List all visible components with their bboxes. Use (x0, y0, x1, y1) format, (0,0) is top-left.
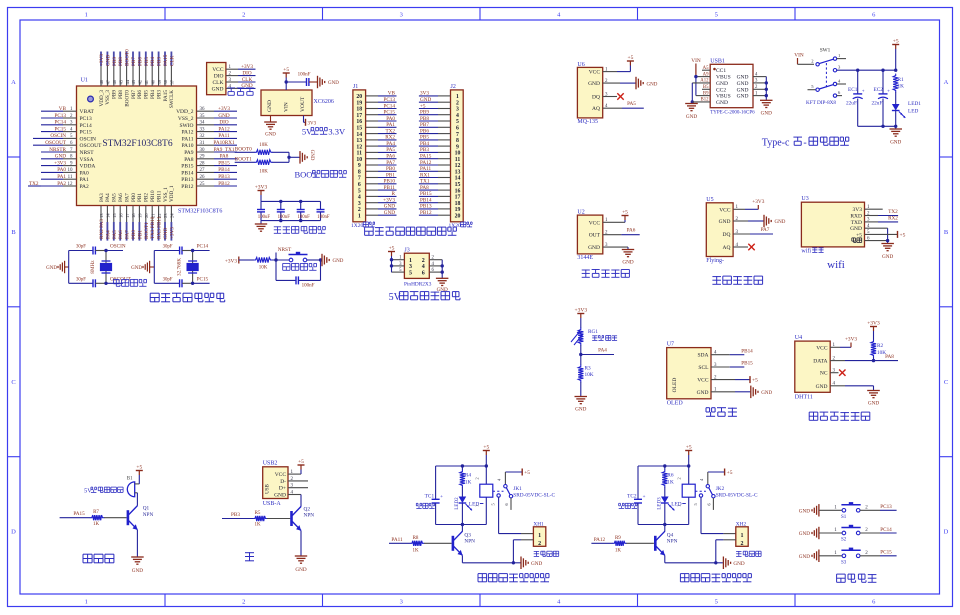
svg-text:MQ-135: MQ-135 (577, 119, 598, 125)
svg-text:VCC: VCC (212, 67, 224, 73)
resistor 10K reset (254, 257, 272, 262)
svg-text:B1: B1 (127, 477, 133, 482)
caption: MCU minimal system (150, 292, 159, 294)
caption: lamp (245, 552, 254, 554)
wire U7 SCL to PB15 (711, 366, 730, 368)
power +5 at J3 (391, 252, 393, 257)
svg-text:13: 13 (356, 138, 362, 144)
svg-text:TXD: TXD (851, 220, 862, 226)
svg-text:5: 5 (491, 503, 496, 505)
svg-text:PA6: PA6 (627, 228, 636, 234)
svg-text:wifi: wifi (827, 259, 845, 271)
svg-text:2: 2 (422, 258, 425, 264)
svg-text:33: 33 (200, 127, 206, 132)
resistor 10K (BOOT1) (255, 160, 273, 165)
svg-text:VCC: VCC (589, 220, 601, 226)
svg-text:TYPE-C-2000-16CP6: TYPE-C-2000-16CP6 (710, 111, 755, 116)
wire U3 TXD to RX2 (865, 221, 879, 223)
svg-text:wifi: wifi (801, 248, 811, 255)
svg-text:DATA: DATA (813, 359, 827, 365)
svg-text:4: 4 (456, 113, 459, 119)
wire CC2 stub (702, 88, 710, 90)
mcu U1 STM32F103C8T6 body (77, 86, 197, 206)
svg-text:8MHz: 8MHz (90, 260, 96, 274)
wire U5 GND (733, 220, 748, 222)
relay JK1 contacts (521, 469, 523, 476)
svg-text:PA4: PA4 (598, 348, 607, 354)
svg-text:+5: +5 (483, 445, 489, 451)
svg-text:XC6206: XC6206 (314, 99, 334, 105)
svg-text:29: 29 (200, 155, 206, 160)
wire U6 VCC to +5 (603, 71, 617, 73)
wire U6 DQ no-connect (603, 96, 617, 98)
svg-text:VBAT: VBAT (80, 109, 95, 115)
svg-text:100nF: 100nF (298, 215, 311, 220)
svg-text:U4: U4 (795, 335, 802, 341)
svg-text:DIO: DIO (214, 74, 224, 80)
svg-text:B: B (944, 229, 949, 236)
svg-text:PC13: PC13 (383, 97, 395, 103)
svg-text:AQ: AQ (723, 245, 731, 251)
svg-text:CLK: CLK (169, 55, 175, 66)
caption: buzzer (83, 553, 92, 555)
svg-text:VSS_3: VSS_3 (105, 90, 111, 105)
wire filter bottom bus (858, 125, 896, 127)
svg-text:43: 43 (131, 79, 136, 84)
svg-text:VIN: VIN (794, 53, 804, 59)
svg-text:3144E: 3144E (577, 255, 593, 261)
svg-text:PA6: PA6 (386, 154, 395, 160)
svg-text:PB3: PB3 (156, 90, 162, 99)
svg-text:1: 1 (456, 94, 459, 100)
svg-text:100uF: 100uF (258, 215, 271, 220)
svg-text:R5: R5 (255, 511, 261, 516)
svg-text:6: 6 (872, 12, 876, 19)
wire Q3 collector (461, 525, 463, 532)
svg-text:VCC: VCC (719, 207, 731, 213)
svg-text:SW1: SW1 (820, 48, 831, 54)
svg-text:3V3: 3V3 (853, 207, 863, 213)
svg-text:8: 8 (358, 170, 361, 176)
svg-text:4: 4 (838, 78, 841, 83)
svg-text:18: 18 (131, 213, 136, 218)
svg-text:36: 36 (200, 107, 206, 112)
svg-text:1: 1 (834, 528, 837, 533)
wire VOUT to 3V3 (303, 116, 305, 123)
wire Q4 collector (664, 525, 666, 532)
svg-text:6: 6 (872, 599, 876, 606)
svg-text:GND: GND (716, 81, 728, 87)
svg-text:10K: 10K (259, 266, 268, 271)
wire Q3 emitter to ground bus (461, 555, 463, 562)
svg-text:+5: +5 (686, 445, 692, 451)
ground at RG1 divider (575, 396, 588, 398)
svg-text:PC14: PC14 (880, 527, 892, 533)
svg-text:RG1: RG1 (588, 329, 598, 335)
button S1 (842, 509, 846, 513)
svg-text:30pF: 30pF (163, 278, 173, 283)
capacitor 100nF reset (295, 276, 297, 284)
svg-text:48: 48 (99, 79, 104, 84)
svg-text:D+: D+ (279, 486, 286, 492)
wire BOOT junction (288, 152, 290, 162)
svg-text:16: 16 (356, 119, 362, 125)
svg-text:PB4: PB4 (150, 57, 156, 66)
svg-text:GND: GND (274, 493, 286, 499)
svg-text:GND: GND (384, 204, 395, 210)
svg-text:CLK: CLK (242, 77, 253, 83)
wire U2 GND (603, 246, 628, 248)
wire Q4 emitter to ground bus (664, 555, 666, 562)
svg-text:GND: GND (105, 55, 111, 66)
svg-text:PA2: PA2 (80, 184, 90, 190)
crystal 8MHz (105, 251, 107, 284)
svg-text:PB12: PB12 (218, 181, 230, 187)
svg-text:4: 4 (422, 264, 425, 270)
capacitor 30pF bottom (92, 279, 94, 287)
svg-text:2: 2 (242, 599, 245, 606)
svg-text:C: C (11, 379, 15, 386)
svg-text:1: 1 (538, 533, 541, 539)
svg-text:PB1: PB1 (386, 172, 395, 178)
svg-text:41: 41 (144, 79, 149, 84)
ground at BOOT divider (299, 151, 301, 164)
svg-text:PA7: PA7 (125, 230, 131, 239)
svg-text:GND: GND (295, 567, 306, 573)
svg-text:PB0: PB0 (131, 230, 137, 239)
svg-text:23: 23 (163, 213, 168, 218)
svg-text:7: 7 (456, 132, 459, 138)
svg-text:38: 38 (163, 79, 168, 84)
svg-text:PA12: PA12 (420, 160, 432, 166)
capacitor 30pF top (92, 247, 94, 255)
crystal 32.768K (192, 251, 194, 284)
svg-text:+5: +5 (298, 459, 304, 465)
svg-text:PC15: PC15 (197, 277, 209, 283)
ground at XC6206 (264, 121, 277, 123)
power +5 at filter (895, 45, 897, 50)
svg-text:RX2 PA3: RX2 PA3 (99, 219, 105, 239)
svg-text:15: 15 (112, 213, 117, 218)
svg-text:SRD-05VDC-SL-C: SRD-05VDC-SL-C (513, 492, 555, 498)
svg-text:1: 1 (838, 53, 841, 58)
svg-text:SCL: SCL (698, 365, 709, 371)
svg-text:PB3: PB3 (157, 57, 163, 66)
svg-text:PB6: PB6 (137, 90, 143, 99)
resistor 10K (BOOT0) (255, 150, 273, 155)
wire U4 VCC to +3V3 (830, 346, 840, 348)
svg-text:PA3: PA3 (99, 193, 105, 202)
svg-text:OSCIN: OSCIN (80, 136, 97, 142)
svg-text:+3V3: +3V3 (867, 321, 880, 327)
svg-text:D: D (944, 529, 949, 536)
svg-text:GND: GND (212, 86, 224, 92)
svg-text:PB15: PB15 (420, 191, 432, 197)
ground at U2 (622, 249, 634, 251)
svg-text:SWIO: SWIO (179, 123, 193, 129)
svg-text:PA9: PA9 (184, 150, 194, 156)
wire crystal outputs (193, 250, 210, 252)
svg-text:PB15: PB15 (218, 160, 230, 166)
wire relay JK1 top bus (436, 465, 487, 467)
svg-text:VDD_3: VDD_3 (99, 90, 105, 107)
wire buzzer to +5 (135, 483, 140, 485)
svg-text:PA0: PA0 (386, 116, 395, 122)
svg-text:PA9_TX1: PA9_TX1 (214, 147, 235, 153)
svg-text:2: 2 (358, 207, 361, 213)
svg-text:PA15: PA15 (420, 154, 432, 160)
svg-text:VB: VB (59, 106, 67, 112)
wire U2 OUT to PA6 (603, 234, 622, 236)
svg-text:PA10: PA10 (181, 143, 193, 149)
svg-text:4: 4 (557, 599, 561, 606)
svg-text:8: 8 (456, 138, 459, 144)
svg-text:PB10: PB10 (383, 179, 395, 185)
svg-text:PA7: PA7 (124, 193, 130, 202)
svg-text:20: 20 (144, 213, 149, 218)
wire U7 SDA to PB14 (711, 354, 730, 356)
svg-text:U5: U5 (706, 197, 713, 203)
svg-text:TX1: TX1 (420, 179, 430, 185)
svg-text:VDD_1: VDD_1 (169, 185, 175, 202)
wire Q2 emitter to ground (300, 531, 302, 556)
svg-text:PB4: PB4 (150, 90, 156, 99)
svg-text:100nF: 100nF (302, 284, 315, 289)
wire U3 +5 (865, 233, 898, 235)
svg-text:GND: GND (131, 266, 142, 271)
svg-text:5: 5 (693, 503, 698, 505)
svg-text:13: 13 (99, 213, 104, 218)
svg-text:11: 11 (455, 157, 461, 163)
svg-text:CC1: CC1 (716, 68, 726, 74)
svg-text:1K: 1K (93, 522, 100, 527)
svg-text:45: 45 (118, 79, 123, 84)
svg-text:PB14: PB14 (181, 170, 193, 176)
svg-text:VIN: VIN (691, 58, 701, 64)
caption: hall sensor (582, 269, 590, 271)
svg-text:PB6: PB6 (137, 57, 143, 66)
svg-text:PA6: PA6 (118, 230, 124, 239)
caption: flame sensor (712, 276, 721, 278)
svg-text:28: 28 (200, 161, 206, 166)
svg-text:GND: GND (737, 75, 749, 81)
capacitor 30pF top (179, 247, 181, 255)
svg-text:TC2: TC2 (627, 494, 637, 500)
svg-text:OSCOUT: OSCOUT (45, 140, 67, 146)
svg-text:1K: 1K (465, 480, 472, 486)
svg-text:GND: GND (737, 94, 749, 100)
svg-text:16: 16 (118, 213, 123, 218)
svg-text:1K: 1K (667, 480, 674, 486)
svg-text:25: 25 (200, 182, 206, 187)
svg-text:PC13: PC13 (80, 116, 92, 122)
svg-text:PA12: PA12 (594, 537, 606, 543)
svg-text:3V3: 3V3 (420, 91, 429, 97)
svg-text:3: 3 (400, 599, 403, 606)
wire U5 VCC to +3V3 (733, 208, 745, 210)
svg-text:2: 2 (865, 551, 868, 556)
svg-text:CLK: CLK (213, 80, 224, 86)
svg-text:PA8: PA8 (885, 354, 894, 360)
capacitor TC1 tantalum (435, 466, 437, 499)
svg-text:SRD-05VDC-SL-C: SRD-05VDC-SL-C (716, 492, 758, 498)
power +5 at relay JK1 (485, 451, 487, 456)
svg-text:PA1: PA1 (386, 122, 395, 128)
svg-text:C: C (944, 379, 948, 386)
svg-text:Q1: Q1 (143, 506, 150, 512)
svg-text:+5: +5 (752, 378, 758, 384)
svg-text:9: 9 (358, 163, 361, 169)
svg-text:PB3: PB3 (231, 512, 240, 518)
svg-text:35: 35 (200, 114, 206, 119)
svg-text:PB1: PB1 (137, 193, 143, 202)
wire U5 DQ to PA7 (733, 233, 750, 235)
svg-text:PA5: PA5 (386, 147, 395, 153)
svg-text:GND: GND (267, 100, 273, 112)
svg-text:NPN: NPN (667, 539, 678, 545)
wire U3 pin6 to ground (865, 240, 888, 242)
svg-text:TX3 PB10: TX3 PB10 (150, 216, 156, 239)
svg-text:PC13: PC13 (54, 113, 66, 119)
svg-text:GND: GND (333, 259, 344, 264)
svg-text:BOOT0: BOOT0 (125, 49, 131, 66)
caption: independent buttons (837, 573, 846, 575)
svg-text:30pF: 30pF (76, 245, 86, 250)
svg-text:GND: GND (420, 97, 431, 103)
svg-text:39: 39 (157, 79, 162, 84)
ground at power filter (895, 126, 897, 129)
svg-text:RXD: RXD (850, 214, 862, 220)
svg-text:+5: +5 (136, 465, 142, 471)
svg-text:100nF: 100nF (317, 215, 330, 220)
svg-text:KFT DIP-8X8: KFT DIP-8X8 (806, 100, 836, 106)
svg-text:VCC: VCC (816, 345, 828, 351)
wire J3 right rail to ground (441, 260, 443, 279)
svg-text:VDD_2: VDD_2 (176, 109, 194, 115)
svg-text:EC1: EC1 (848, 87, 858, 93)
wire relay JK1 bottom bus (436, 524, 487, 526)
svg-text:PB3: PB3 (420, 147, 429, 153)
wire U3 GND down (865, 227, 888, 229)
svg-text:PB7: PB7 (131, 90, 137, 99)
svg-text:PC15: PC15 (383, 110, 395, 116)
svg-text:PA5: PA5 (112, 193, 118, 202)
svg-text:R8: R8 (413, 536, 419, 541)
svg-text:6: 6 (504, 503, 509, 506)
svg-text:PC15: PC15 (880, 550, 892, 556)
svg-text:GND: GND (328, 81, 339, 86)
caption: crystal circuit (114, 278, 120, 280)
svg-text:R3: R3 (585, 366, 592, 372)
svg-text:U3: U3 (801, 196, 808, 202)
caption: chip filter capacitors (274, 226, 281, 228)
svg-text:Q3: Q3 (464, 532, 471, 538)
svg-text:JK2: JK2 (716, 486, 725, 492)
capacitor 100nF (filter bank) (320, 201, 322, 209)
svg-text:GND: GND (733, 561, 744, 567)
svg-text:1: 1 (409, 258, 412, 264)
svg-text:BOOT0: BOOT0 (235, 146, 252, 152)
svg-text:PB13: PB13 (420, 204, 432, 210)
svg-text:1K: 1K (412, 549, 419, 554)
svg-text:24: 24 (170, 213, 175, 218)
svg-text:PA7: PA7 (386, 160, 395, 166)
svg-text:Q2: Q2 (304, 506, 311, 512)
wire U4 DATA to PA8 (830, 360, 845, 362)
svg-text:OSCIN: OSCIN (110, 244, 126, 250)
svg-text:2: 2 (811, 59, 814, 64)
svg-text:VIN: VIN (284, 102, 290, 112)
svg-text:BOOT1: BOOT1 (235, 156, 252, 162)
svg-text:2: 2 (677, 477, 682, 479)
svg-text:R4: R4 (465, 473, 472, 479)
svg-text:Type-c: Type-c (762, 138, 790, 149)
svg-text:46: 46 (112, 79, 117, 84)
svg-text:3: 3 (400, 12, 403, 19)
svg-text:B: B (11, 229, 16, 236)
svg-text:EC2: EC2 (874, 87, 884, 93)
power +3V3 at RG1 (580, 314, 582, 319)
wire USB2 VCC to +5 (288, 473, 301, 475)
svg-text:32.768K: 32.768K (177, 258, 183, 276)
wire crystal outputs (106, 250, 123, 252)
svg-text:+3V3: +3V3 (54, 160, 66, 166)
svg-text:PC14: PC14 (197, 244, 209, 250)
svg-text:PC15: PC15 (80, 130, 92, 136)
svg-text:PB11: PB11 (384, 185, 396, 191)
wire CC1 stub (702, 69, 710, 71)
svg-text:PB6: PB6 (420, 128, 429, 134)
wire VIN node (285, 78, 287, 91)
svg-text:30pF: 30pF (163, 245, 173, 250)
svg-text:PA1: PA1 (57, 174, 66, 180)
svg-text:AQ: AQ (592, 106, 600, 112)
svg-text:STM32F103C8T6: STM32F103C8T6 (102, 139, 172, 149)
capacitor 30pF bottom (179, 279, 181, 287)
svg-text:22uF: 22uF (872, 101, 883, 107)
svg-text:14: 14 (356, 132, 362, 138)
svg-text:+5: +5 (389, 246, 395, 252)
svg-text:PA11: PA11 (218, 133, 230, 139)
svg-text:1: 1 (85, 12, 88, 19)
svg-text:PA4: PA4 (105, 230, 111, 239)
caption: display (706, 407, 710, 409)
svg-text:6: 6 (838, 90, 841, 95)
svg-text:GND: GND (850, 226, 862, 232)
svg-text:100nF: 100nF (298, 73, 311, 78)
svg-text:TC1: TC1 (425, 494, 435, 500)
svg-text:GND: GND (799, 554, 810, 560)
svg-text:37: 37 (170, 79, 175, 84)
ground at J3 (436, 277, 449, 279)
svg-text:31: 31 (200, 141, 206, 146)
wire relay contact to XH1 pin1 (498, 497, 500, 533)
svg-text:+3V3: +3V3 (225, 258, 237, 264)
svg-text:R9: R9 (615, 536, 621, 541)
svg-text:GND: GND (686, 114, 697, 120)
svg-text:1X20: 1X20 (351, 223, 363, 229)
svg-text:1K: 1K (898, 84, 905, 90)
capacitor 100nF (filter bank) (300, 201, 302, 209)
svg-text:GND: GND (265, 133, 276, 138)
svg-text:40: 40 (150, 79, 155, 84)
svg-text:17: 17 (455, 195, 461, 201)
svg-text:PA0: PA0 (57, 167, 66, 173)
wire USB2 D+ stub (288, 487, 308, 489)
svg-text:11: 11 (68, 175, 73, 180)
wire relay JK2 bottom bus (638, 524, 689, 526)
svg-text:19: 19 (138, 213, 143, 218)
